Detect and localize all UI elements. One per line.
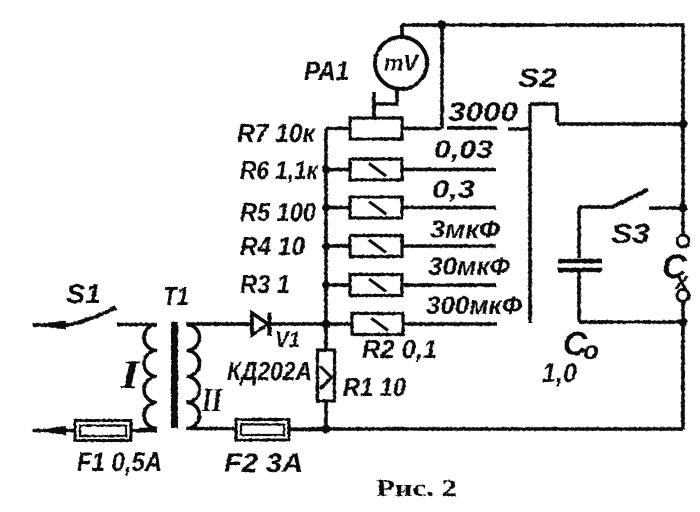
svg-text:x: x	[673, 268, 690, 295]
svg-text:F2 3А: F2 3А	[224, 448, 303, 478]
svg-text:0,3: 0,3	[432, 176, 475, 204]
svg-text:T1: T1	[163, 281, 189, 311]
svg-text:mV: mV	[384, 51, 420, 76]
svg-text:3мкФ: 3мкФ	[430, 216, 501, 244]
svg-text:300мкФ: 300мкФ	[426, 292, 522, 320]
svg-text:Рис. 2: Рис. 2	[376, 476, 457, 502]
svg-text:PA1: PA1	[304, 56, 349, 86]
svg-text:R6 1,1к: R6 1,1к	[240, 155, 320, 185]
svg-text:S3: S3	[611, 218, 650, 249]
svg-text:R5 100: R5 100	[240, 197, 316, 227]
svg-text:R2 0,1: R2 0,1	[362, 334, 437, 364]
svg-text:КД202А: КД202А	[227, 356, 312, 386]
svg-text:F1 0,5А: F1 0,5А	[77, 447, 162, 477]
svg-text:30мкФ: 30мкФ	[428, 253, 510, 281]
svg-text:II: II	[201, 382, 223, 419]
svg-text:R4 10: R4 10	[240, 231, 305, 261]
svg-text:R1 10: R1 10	[343, 372, 406, 402]
svg-text:I: I	[120, 352, 141, 397]
svg-text:S1: S1	[66, 279, 101, 309]
svg-text:V1: V1	[275, 327, 300, 352]
svg-text:0,03: 0,03	[434, 136, 493, 164]
svg-text:3000: 3000	[448, 97, 518, 127]
svg-text:R7 10к: R7 10к	[237, 118, 317, 148]
svg-text:R3 1: R3 1	[240, 269, 290, 299]
svg-text:о: о	[583, 335, 599, 365]
svg-text:S2: S2	[518, 63, 557, 93]
svg-text:1,0: 1,0	[542, 358, 577, 388]
